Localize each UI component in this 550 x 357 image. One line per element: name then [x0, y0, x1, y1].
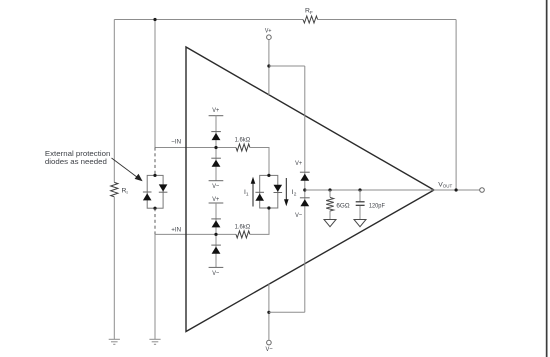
svg-text:+IN: +IN — [171, 226, 181, 233]
wire dashed -IN to protection box — [154, 148, 156, 176]
wire -IN horizontal — [155, 147, 236, 149]
svg-text:I2: I2 — [292, 189, 297, 198]
V+ supply terminal — [267, 35, 272, 40]
output clamp diode upper — [295, 160, 310, 181]
svg-text:I1: I1 — [244, 189, 249, 198]
node diff box top — [267, 174, 270, 177]
current arrow I1 — [251, 177, 256, 207]
wire output to terminal — [434, 189, 480, 191]
node output/feedback — [455, 188, 458, 191]
node V- branch — [267, 311, 270, 314]
svg-text:1.6kΩ: 1.6kΩ — [235, 224, 251, 231]
ground right — [149, 339, 160, 344]
svg-text:RI: RI — [122, 188, 128, 196]
wire V- into amp — [268, 283, 270, 340]
wire +IN horizontal — [155, 233, 236, 235]
op-amp triangle — [186, 47, 434, 332]
wire dashed protection box to +IN — [154, 208, 156, 234]
svg-text:−IN: −IN — [171, 139, 181, 146]
diode diff left (up) — [255, 192, 264, 200]
wire top feedback right segment — [318, 19, 457, 21]
wire after 1.6k to box — [250, 148, 269, 176]
diode protection right (down) — [159, 184, 168, 192]
svg-text:V+: V+ — [212, 196, 219, 203]
svg-text:120pF: 120pF — [369, 202, 385, 209]
wire after 1.6k up to box — [250, 208, 269, 234]
wire internal output node — [305, 189, 434, 191]
diode protection left (up) — [143, 192, 152, 200]
svg-text:VOUT: VOUT — [438, 181, 452, 188]
svg-text:RF: RF — [305, 8, 313, 16]
output terminal — [480, 188, 485, 193]
wire +IN down to ground — [154, 234, 156, 339]
resistor RI — [111, 182, 118, 196]
wire top feedback left segment — [114, 19, 303, 21]
wire clamp rail vertical — [304, 66, 306, 312]
capacitor 120pF branch — [354, 188, 385, 226]
svg-text:V−: V− — [266, 346, 273, 353]
node protection box bottom — [153, 207, 156, 210]
diode diff right (down) — [274, 185, 283, 193]
annotation arrow — [112, 158, 143, 181]
wire left vertical upper — [113, 20, 115, 183]
node diff box bottom — [267, 206, 270, 209]
svg-text:V+: V+ — [265, 28, 272, 35]
svg-text:6GΩ: 6GΩ — [336, 202, 349, 209]
wire V+ into amp — [268, 40, 270, 96]
resistor 6G branch — [324, 188, 350, 226]
V- supply terminal — [267, 340, 272, 345]
input clamp stack 1 (inverting) — [209, 107, 224, 190]
ground left — [109, 339, 120, 344]
input clamp stack 2 (noninverting) — [209, 196, 224, 277]
svg-text:1.6kΩ: 1.6kΩ — [235, 137, 251, 144]
svg-text:diodes as needed: diodes as needed — [45, 157, 107, 166]
wire left vertical lower — [113, 197, 115, 339]
svg-text:V−: V− — [212, 270, 219, 277]
resistor RF — [303, 16, 318, 23]
wire V+ to clamp rail — [269, 65, 305, 67]
svg-text:V+: V+ — [295, 160, 302, 167]
resistor 1.6k inverting — [236, 144, 250, 151]
protection diode box — [147, 175, 163, 208]
svg-text:V−: V− — [212, 183, 219, 190]
output clamp diode lower — [295, 198, 310, 219]
svg-text:V+: V+ — [212, 107, 219, 114]
current arrow I2 — [284, 178, 289, 206]
node feedback/-IN junction — [153, 18, 156, 21]
differential clamp box — [260, 175, 278, 208]
svg-text:V−: V− — [295, 212, 302, 219]
node protection box top — [153, 174, 156, 177]
wire inverting input drop — [154, 20, 156, 148]
wire feedback right drop — [455, 20, 457, 191]
node V+ branch — [267, 64, 270, 67]
wire V- to clamp rail — [269, 311, 305, 313]
node output clamp — [303, 188, 306, 191]
resistor 1.6k noninverting — [236, 231, 250, 238]
frame right border — [546, 0, 548, 357]
